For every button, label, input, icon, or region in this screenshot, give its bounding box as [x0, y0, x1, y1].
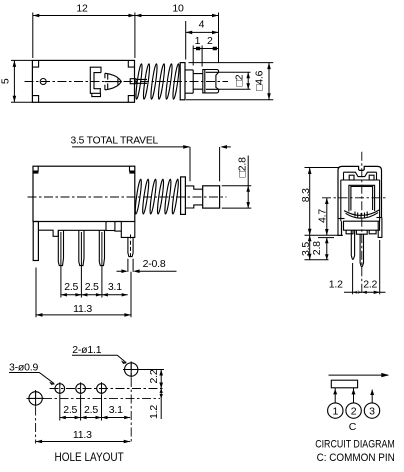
dim 2.5/2.5/3.1 ext lines	[61, 232, 102, 298]
dim 1.2/2.2 ext right	[379, 240, 381, 294]
svg-text:12: 12	[76, 3, 88, 15]
side left leg inner line	[338, 221, 342, 235]
dim 2.2/1.2 ext line top	[139, 369, 165, 371]
corner notch bottom-left	[32, 96, 38, 103]
mount hole left cross	[28, 391, 45, 407]
dim 2.5/2.5/3.1 ext lines hole layout	[60, 395, 102, 421]
side spring coil hatches	[355, 212, 367, 219]
shaft slot tab on body edge	[130, 79, 136, 84]
svg-text:10: 10	[172, 3, 184, 15]
right hole centerline vertical	[130, 362, 132, 444]
dim sq2 arrows	[246, 72, 250, 89]
dim 10/4 extension line right	[218, 13, 220, 63]
plunger neck top view	[193, 74, 203, 90]
svg-text:2: 2	[207, 35, 213, 47]
svg-text:1.2: 1.2	[329, 279, 343, 291]
svg-text:3: 3	[369, 406, 375, 418]
label 3-dia0.9 underline and leader	[9, 373, 54, 384]
dim sq2 line	[247, 72, 249, 89]
svg-text:3.1: 3.1	[108, 281, 122, 293]
dim 11.3 ext lines	[35, 268, 37, 318]
plunger flange top view	[180, 63, 185, 100]
dim 1.2 line	[193, 48, 218, 50]
side inner frame verticals	[341, 180, 380, 221]
dim 5 line	[13, 60, 15, 102]
dim 10 arrows	[135, 14, 219, 18]
wire pin2 to bar	[353, 388, 355, 403]
svg-text:2-ø1.1: 2-ø1.1	[72, 344, 102, 356]
dim 10 line	[135, 15, 219, 17]
dim 1.2 arrows	[160, 389, 163, 399]
dim sq2 extension lines	[219, 72, 251, 89]
side lid line	[344, 172, 377, 176]
dim 1.2/2.2 ext left	[352, 263, 354, 294]
pin hole 2	[76, 384, 86, 394]
svg-text:2.2: 2.2	[148, 369, 160, 383]
mount hole right 1.1	[125, 363, 138, 376]
ext below right pin	[130, 272, 132, 318]
dim 2-0.8 ext lines	[128, 259, 133, 272]
dim sq4.6 line	[268, 63, 270, 100]
dim 11.3 arrows	[36, 313, 131, 317]
side shoulder left	[338, 218, 345, 220]
dim 3.5 travel right tail	[226, 146, 231, 148]
dim ticks front	[61, 293, 128, 296]
dim 2.5/2.5/3.1 line	[61, 294, 128, 296]
svg-text:1.2: 1.2	[148, 405, 160, 419]
corner notch top-right	[128, 60, 134, 67]
hole row centerline	[50, 388, 164, 390]
pin hole 3 cross	[101, 382, 103, 394]
wire pin3	[371, 390, 373, 404]
plunger shoulder front view	[185, 186, 202, 208]
top-right notch bar	[129, 171, 134, 174]
wire pin1 arrow	[333, 389, 337, 394]
svg-text:1: 1	[195, 35, 201, 47]
body outline top view	[32, 60, 134, 102]
left support leg	[33, 222, 38, 261]
svg-text:3-ø0.9: 3-ø0.9	[9, 361, 39, 373]
dim 2.5/2.5/3.1 line hole layout	[60, 417, 130, 419]
side spring seat arc outer	[344, 210, 379, 216]
side lid edge verticals	[344, 172, 377, 180]
svg-text:2.5: 2.5	[64, 281, 78, 293]
wire pin2 arrow	[352, 389, 356, 394]
svg-text:4.7: 4.7	[317, 209, 329, 223]
latch cone	[105, 73, 122, 90]
dim 4 line	[186, 31, 219, 33]
mount hole right cross	[123, 362, 140, 378]
plunger shoulder top view	[185, 70, 193, 93]
side left pin	[351, 230, 354, 259]
pin 3 front	[99, 230, 104, 265]
dim 2.8 ext top	[318, 237, 334, 239]
bottom right step	[121, 222, 135, 238]
svg-text:2.8: 2.8	[311, 241, 323, 255]
svg-text:3.5 TOTAL TRAVEL: 3.5 TOTAL TRAVEL	[71, 134, 159, 146]
pin 3 circle	[364, 403, 379, 418]
side plunger square inner	[351, 186, 373, 210]
side step below band left	[346, 230, 353, 234]
side inner frame top line	[341, 179, 380, 181]
side body outer outline	[338, 166, 382, 218]
dim sq4.6 arrows	[267, 63, 271, 100]
dim 8.3 arrows	[308, 168, 312, 236]
dim 12 line	[33, 15, 135, 17]
dim 3.5 side line	[309, 235, 311, 260]
dim 2-0.8 tail lines	[117, 270, 177, 272]
svg-text:11.3: 11.3	[73, 429, 92, 441]
wire pin3 arrow	[370, 390, 374, 395]
top-left notch front	[33, 166, 38, 171]
dim sq2.8 arrows	[246, 186, 250, 208]
right pin hidden centerline	[130, 235, 132, 258]
svg-text:2.2: 2.2	[363, 279, 377, 291]
svg-text:HOLE LAYOUT: HOLE LAYOUT	[55, 450, 125, 464]
dim 4.7 arrows	[325, 198, 329, 235]
pin 1 circle	[328, 403, 343, 418]
left hole centerline horizontal	[27, 397, 161, 399]
dim 4 arrows	[186, 31, 219, 35]
dim 4.7 line	[326, 198, 328, 235]
side pin socket square left	[349, 175, 354, 180]
standoff boss	[115, 222, 121, 232]
dim 4 extension line	[185, 21, 187, 60]
side left leg	[338, 219, 342, 236]
svg-text:C: C	[349, 421, 357, 433]
dim 1.2 extension lines	[193, 46, 202, 67]
button front view	[203, 186, 220, 208]
side view horizontal centerline	[322, 197, 386, 199]
dim 1.2/2.2 line	[344, 291, 386, 293]
dim sq4.6 extension lines	[186, 63, 273, 100]
dim 8.3/3.5 ext mid	[305, 234, 344, 236]
pin 2 front	[79, 230, 84, 265]
dim 2.8 side arrows	[325, 238, 329, 260]
common contact bar	[331, 380, 357, 388]
dim ticks hole layout	[60, 416, 130, 419]
dim 8.3 line	[309, 168, 311, 236]
shaft lines through spring start	[136, 79, 147, 83]
side step below band right	[369, 230, 376, 234]
dim 3.5 travel left arrow	[183, 145, 190, 149]
dim 3.5 travel right arrow	[220, 145, 227, 149]
label 3-dia0.9 leader arrow	[49, 382, 55, 385]
body outline front view	[33, 166, 135, 221]
svg-text:1: 1	[332, 406, 338, 418]
svg-text:2: 2	[351, 406, 357, 418]
dim 12/10 extension line mid	[134, 13, 136, 59]
svg-text:□4.6: □4.6	[253, 70, 265, 90]
dim 3.5 travel ext line right	[219, 147, 221, 181]
wire pin1 to bar	[334, 388, 336, 403]
left hole centerline vertical	[35, 390, 37, 444]
right pin front	[128, 237, 133, 256]
spring top view	[135, 64, 180, 100]
dim 1.2/2.2 ticks	[353, 291, 380, 294]
dim 12 arrows	[33, 14, 135, 18]
label 2-dia1.1 leader arrow	[121, 361, 127, 364]
dim 2.2 arrows	[159, 370, 163, 389]
svg-text:5: 5	[0, 78, 12, 84]
pin hole 2 cross	[80, 382, 82, 394]
pin hole circle left	[40, 79, 46, 85]
corner notch bottom-right	[128, 96, 134, 103]
svg-text:CIRCUIT DIAGRAM: CIRCUIT DIAGRAM	[315, 438, 395, 450]
centerline top view	[25, 81, 229, 83]
side step below band center	[356, 230, 367, 234]
dim 2.8 side line	[326, 238, 328, 260]
centerline front view	[28, 196, 227, 198]
dim 5 extension lines	[11, 60, 32, 102]
dim 3.5 side arrows	[308, 235, 312, 260]
mount hole left 1.1	[29, 392, 42, 405]
pin 2 circle	[346, 403, 361, 418]
dim 1.2 arrow ticks	[196, 47, 217, 51]
slider travel arrow	[381, 373, 389, 377]
spring front view	[134, 179, 179, 214]
side plunger square outer	[349, 185, 375, 211]
svg-text:□2.8: □2.8	[237, 157, 249, 177]
dim sq2.8 line	[247, 156, 249, 209]
top-left notch bar	[33, 171, 38, 174]
side spring seat arc inner	[346, 213, 379, 219]
pin 1 front	[58, 230, 63, 265]
svg-text:2.5: 2.5	[63, 404, 77, 416]
dim 11.3 arrows hole layout	[36, 440, 131, 444]
plunger flange front view	[181, 177, 186, 215]
dim 3.5 travel line	[72, 146, 189, 148]
dim 8.3 ext top	[305, 167, 340, 169]
shelf and notch bottom left	[38, 222, 106, 237]
slider travel line	[329, 374, 389, 376]
dim 2.2/1.2 line	[160, 370, 162, 420]
svg-text:C: COMMON PIN: C: COMMON PIN	[317, 452, 395, 464]
svg-text:2-0.8: 2-0.8	[143, 258, 166, 270]
dim 3.5 travel ext line left	[189, 147, 191, 181]
dim 2-0.8 arrows	[121, 269, 139, 273]
label 2-dia1.1 underline and leader	[72, 355, 126, 363]
top-right notch front	[130, 166, 135, 171]
svg-text:2.5: 2.5	[85, 281, 99, 293]
corner notch top-left	[32, 60, 38, 67]
svg-text:8.3: 8.3	[300, 188, 312, 202]
pin hole 1 cross	[59, 382, 61, 394]
side view vertical centerline	[361, 152, 363, 295]
svg-text:4: 4	[199, 19, 205, 31]
side shoulder right	[377, 217, 382, 219]
pin hole 3	[97, 384, 107, 394]
pin hole 1	[55, 384, 65, 394]
side center pin	[360, 234, 363, 267]
latch bracket	[90, 67, 101, 96]
strip to boss connect line	[106, 230, 115, 232]
button top view	[203, 70, 219, 93]
dim 11.3 line hole layout	[36, 441, 131, 443]
side base band	[344, 221, 380, 230]
svg-text:□2: □2	[233, 74, 245, 86]
dim sq2.8 ext lines	[222, 186, 252, 208]
dim 11.3 line	[36, 314, 131, 316]
dim 5 arrows	[13, 60, 17, 102]
side right leg	[378, 218, 382, 238]
svg-text:11.3: 11.3	[73, 303, 92, 315]
svg-text:3.1: 3.1	[109, 404, 123, 416]
dim 12 extension line left	[32, 13, 34, 59]
svg-text:2.5: 2.5	[84, 404, 98, 416]
side pin socket square right	[369, 175, 374, 180]
dim 3.5/2.8 ext bottom	[305, 259, 329, 261]
